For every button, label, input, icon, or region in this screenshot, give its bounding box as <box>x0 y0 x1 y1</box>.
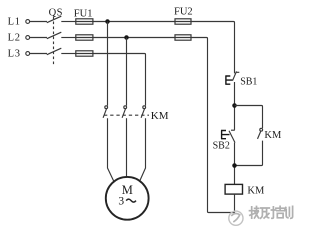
pushbutton SB1 (stop, NC) <box>225 71 239 84</box>
wire phase B down to KM contact <box>126 38 128 106</box>
junction A <box>232 103 237 108</box>
wire L3 terminal to QS <box>30 53 47 55</box>
svg-text:SB2: SB2 <box>213 141 230 152</box>
svg-text:L1: L1 <box>8 16 21 27</box>
pushbutton SB2 (start, NO) <box>221 130 235 142</box>
wire contact2 to motor lead <box>126 118 128 177</box>
coil KM <box>225 184 242 194</box>
node L2 <box>8 32 30 43</box>
junction B <box>232 163 237 168</box>
wire L2 row from FU1 to left control corner, down and along bottom <box>93 38 235 213</box>
wire SB2 to coil <box>234 143 236 185</box>
wire QS pole2 to FU1 <box>61 37 76 39</box>
wire phase A down to KM contact <box>107 22 109 106</box>
svg-text:SB1: SB1 <box>240 77 257 88</box>
svg-text:3: 3 <box>118 195 124 207</box>
fuse FU1 pole 3 <box>76 51 93 56</box>
fuse FU2 pole 2 <box>175 35 191 40</box>
wire junction A to KM aux branch <box>235 106 263 129</box>
fuse FU1 pole 1 <box>76 19 93 24</box>
svg-text:FU1: FU1 <box>74 8 93 19</box>
wire contact3 to motor lead <box>140 118 146 181</box>
junction L1 tap <box>105 19 110 24</box>
svg-text:KM: KM <box>151 110 169 122</box>
switch QS pole 1 blade <box>47 16 62 23</box>
wire SB1 to junction A <box>234 82 236 130</box>
contactor KM aux contact <box>258 128 263 139</box>
node L3 <box>8 48 30 59</box>
wire L2 terminal to QS <box>30 37 47 39</box>
watermark logo and text (decorative) <box>229 206 293 225</box>
switch QS pole 3 blade <box>47 48 62 55</box>
contactor KM main contact 2 <box>122 106 127 118</box>
node L1 <box>8 16 30 27</box>
wire QS pole1 to FU1 <box>61 21 76 23</box>
svg-text:FU2: FU2 <box>174 7 193 18</box>
wire L1 terminal to QS <box>30 21 47 23</box>
KM main contacts linkage (dashed) <box>104 114 149 116</box>
svg-text:KM: KM <box>264 130 282 141</box>
switch QS linkage (dashed) <box>53 17 55 65</box>
contactor KM main contact 1 <box>103 106 108 118</box>
fuse FU2 pole 1 <box>175 19 191 24</box>
wire contact1 to motor lead <box>108 118 114 181</box>
fuse FU1 pole 2 <box>76 35 93 40</box>
switch QS pole 2 blade <box>47 32 62 39</box>
wire L1 row from FU1 to control corner, turns down <box>93 22 235 74</box>
svg-text:QS: QS <box>49 8 63 19</box>
wire L3 row from FU1, corner down to contact <box>93 54 146 106</box>
motor M 3~ <box>106 177 149 220</box>
contactor KM main contact 3 <box>141 106 146 118</box>
svg-text:L3: L3 <box>8 48 21 59</box>
svg-text:L2: L2 <box>8 32 21 43</box>
wire KM aux to junction B <box>235 141 263 166</box>
wire QS pole3 to FU1 <box>61 53 76 55</box>
svg-text:KM: KM <box>247 185 265 196</box>
wire coil to bottom rail <box>234 194 236 212</box>
junction L2 tap <box>124 35 129 40</box>
